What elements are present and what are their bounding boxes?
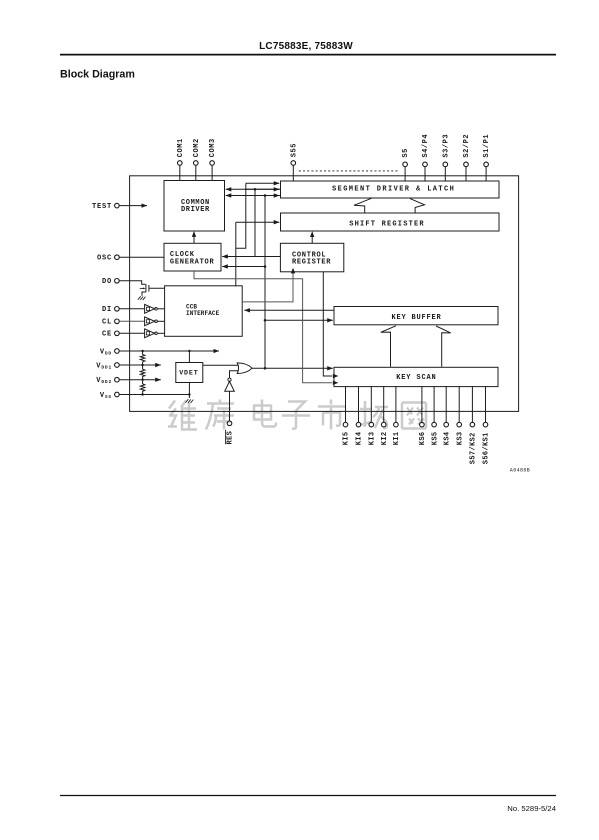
- wire KEY BUFFER to CCB: [244, 309, 334, 311]
- svg-text:KI2: KI2: [381, 432, 389, 446]
- wire line D CCB to SHIFT REGISTER: [236, 221, 279, 223]
- wire KS6: [421, 386, 423, 422]
- wire CE to buffer: [119, 332, 144, 334]
- svg-text:RES: RES: [227, 431, 235, 445]
- svg-text:KS5: KS5: [431, 432, 439, 446]
- pin S3/P3: [443, 162, 448, 167]
- buffer U4 (DI): [145, 304, 155, 313]
- wire CLOCK GENERATOR to KEY SCAN: [194, 271, 332, 383]
- transistor Q1 bulk lead: [140, 287, 144, 289]
- pin S1/P1: [484, 162, 489, 167]
- block labels: [170, 186, 530, 474]
- wire S56/KS1: [485, 386, 487, 422]
- node VDD2-R: [141, 379, 143, 381]
- svg-text:LC75883E, 75883W: LC75883E, 75883W: [259, 41, 353, 52]
- node line C bus: [264, 194, 267, 197]
- wire KS5: [433, 386, 435, 422]
- svg-text:KS4: KS4: [443, 432, 451, 446]
- wire bus to KEY BUFFER: [265, 319, 333, 321]
- node bus-clock: [264, 265, 267, 268]
- pin DO: [115, 279, 120, 284]
- pin KS3: [457, 422, 462, 427]
- transistor Q1 source lead: [142, 292, 146, 296]
- svg-text:VDD1: VDD1: [96, 362, 112, 370]
- pin CE: [115, 331, 120, 336]
- wire KS3: [458, 386, 460, 422]
- svg-text:COM1: COM1: [177, 138, 185, 157]
- wire buffer to CCB (CE): [157, 332, 164, 334]
- pin S56/KS1: [483, 422, 488, 427]
- wire KI4: [358, 386, 360, 422]
- wire CCB to CONTROL REGISTER: [242, 273, 293, 302]
- wire KI1: [395, 386, 397, 422]
- wire CONTROL REGISTER to SHIFT REGISTER: [311, 233, 313, 244]
- wire buffer to CCB (CL): [157, 320, 164, 322]
- svg-text:TEST: TEST: [92, 203, 112, 211]
- wire COM3 to COMMON DRIVER: [211, 165, 213, 180]
- node bus-or: [264, 367, 267, 370]
- svg-text:S4/P4: S4/P4: [422, 134, 430, 158]
- wire CCB top vertical: [235, 222, 237, 286]
- wire DI to buffer: [119, 308, 144, 310]
- pin S55: [291, 161, 296, 166]
- svg-text:S57/KS2: S57/KS2: [470, 432, 478, 464]
- block CCB INTERFACE: [165, 286, 243, 337]
- wire buffer to CCB (DI): [157, 308, 164, 310]
- pin VDD: [115, 349, 120, 354]
- wire line A CCB to SEGMENT: [246, 182, 279, 184]
- wire bus B vertical: [254, 189, 256, 256]
- wire VDET to OR gate: [203, 364, 239, 366]
- wire VDD internal arrow: [119, 350, 219, 352]
- block CLOCK GENERATOR: [164, 243, 221, 271]
- wire RES to inverter: [229, 391, 231, 421]
- svg-text:SEGMENT DRIVER & LATCH: SEGMENT DRIVER & LATCH: [332, 186, 455, 194]
- inverter U2: [225, 381, 235, 391]
- wire KI5: [345, 386, 347, 422]
- fat arrow SHIFT to SEGMENT: [354, 198, 451, 367]
- block SHIFT REGISTER: [281, 213, 500, 231]
- pin VSS: [115, 392, 120, 397]
- transistor Q1 gate plate: [148, 285, 150, 292]
- svg-text:S55: S55: [290, 143, 298, 157]
- pin VDD1: [115, 363, 120, 368]
- svg-text:COM2: COM2: [193, 138, 201, 157]
- node line B bus: [254, 188, 257, 191]
- wire DO to output transistor: [119, 281, 145, 285]
- wire KI2: [383, 386, 385, 422]
- pin KI3: [369, 422, 374, 427]
- svg-text:S5: S5: [402, 148, 410, 158]
- wire S4/P4 to SEGMENT DRIVER: [424, 167, 426, 181]
- resistor R2 (VDD1-VDD2): [140, 365, 145, 380]
- wire KS4: [445, 386, 447, 422]
- svg-text:CE: CE: [102, 331, 112, 339]
- wire VDET to VSS: [188, 383, 190, 399]
- pin KI2: [381, 422, 386, 427]
- wire bus reset vertical: [264, 196, 266, 369]
- svg-text:SHIFT REGISTER: SHIFT REGISTER: [349, 220, 425, 228]
- top pin wires: [180, 165, 486, 181]
- node VDD1-R: [141, 364, 143, 366]
- wire OR output to KEY SCAN: [252, 367, 333, 369]
- svg-text:INTERFACE: INTERFACE: [186, 310, 220, 317]
- wire KI3: [370, 386, 372, 422]
- wire COM1 to COMMON DRIVER: [179, 165, 181, 180]
- page footer: [60, 795, 556, 797]
- wire S2/P2 to SEGMENT DRIVER: [465, 167, 467, 181]
- pin CL: [115, 319, 120, 324]
- pin KS6: [420, 422, 425, 427]
- pin KI1: [394, 422, 399, 427]
- block SEGMENT DRIVER & LATCH: [281, 181, 500, 198]
- wire CLOCK GENERATOR to COMMON DRIVER: [193, 232, 195, 243]
- wire VDD1 internal arrow: [119, 364, 161, 366]
- node VDET-VSS: [188, 393, 190, 395]
- svg-text:OSC: OSC: [97, 255, 112, 263]
- wire CONTROL REGISTER to CLOCK GENERATOR 1: [222, 256, 280, 258]
- svg-text:S2/P2: S2/P2: [463, 134, 471, 158]
- svg-text:KS3: KS3: [456, 432, 464, 446]
- wire S1/P1 to SEGMENT DRIVER: [485, 167, 487, 181]
- pin RES: [227, 421, 232, 426]
- or-gate U7: [237, 363, 252, 374]
- bottom pin circles: [227, 421, 488, 427]
- svg-text:CL: CL: [102, 319, 112, 327]
- svg-text:Block Diagram: Block Diagram: [60, 69, 135, 81]
- wire S55 to SEGMENT DRIVER: [292, 165, 294, 181]
- wire inverter to OR gate: [230, 371, 239, 378]
- junction dots: [141, 188, 266, 396]
- pin COM1: [178, 161, 183, 166]
- top pin circles: [178, 161, 489, 167]
- dashed bus S6..S54: [299, 170, 398, 172]
- wire VDD2 internal arrow: [119, 379, 161, 381]
- svg-text:DO: DO: [102, 278, 112, 286]
- pin OSC: [115, 255, 120, 260]
- svg-text:VDET: VDET: [179, 370, 198, 377]
- svg-text:KS6: KS6: [419, 432, 427, 446]
- buffer U5 (CL): [145, 317, 155, 326]
- diagram: [130, 176, 519, 412]
- wire COM2 to COMMON DRIVER: [195, 165, 197, 180]
- block CONTROL REGISTER: [280, 243, 343, 271]
- wire OSC to CLOCK GENERATOR: [119, 256, 164, 258]
- pin COM2: [194, 161, 199, 166]
- outer border of IC: [130, 176, 519, 412]
- transistor Q1 channel plate: [145, 284, 147, 292]
- wire S57/KS2: [471, 386, 473, 422]
- resistor R1 (VDD-VDD1): [140, 351, 145, 365]
- svg-text:REGISTER: REGISTER: [292, 259, 331, 267]
- pin KI5: [343, 422, 348, 427]
- bottom pin labels: [226, 430, 491, 464]
- left pin labels: [92, 203, 112, 400]
- buffer U6 (CE): [145, 329, 155, 338]
- node VDD-VDET: [188, 350, 190, 352]
- wire line B COMMON-SEGMENT: [226, 188, 280, 190]
- wire line C COMMON-SEGMENT: [226, 195, 280, 197]
- svg-text:KI5: KI5: [343, 432, 351, 446]
- pin VDD2: [115, 377, 120, 382]
- block KEY BUFFER: [334, 307, 498, 325]
- ground below VDET: [186, 399, 194, 403]
- ground below Q1: [138, 296, 146, 300]
- svg-text:DRIVER: DRIVER: [181, 206, 210, 214]
- svg-text:KI1: KI1: [393, 432, 401, 446]
- svg-text:VSS: VSS: [100, 392, 112, 400]
- pin KS5: [432, 422, 437, 427]
- wire S5 to SEGMENT DRIVER: [404, 167, 406, 181]
- svg-text:GENERATOR: GENERATOR: [170, 258, 215, 266]
- watermark 维库电子市场网: [168, 400, 426, 430]
- pin S2/P2: [464, 162, 469, 167]
- left pin circles: [115, 203, 120, 397]
- fat arrow KEY SCAN to KEY BUFFER right: [436, 326, 451, 367]
- bottom pin wires: [346, 386, 486, 422]
- svg-text:S3/P3: S3/P3: [442, 134, 450, 158]
- node VDD-R1: [141, 350, 143, 352]
- svg-text:KI3: KI3: [369, 432, 377, 446]
- wire CONTROL REGISTER to KEY SCAN: [323, 272, 332, 376]
- wire TEST input arrow: [119, 205, 147, 207]
- svg-text:KEY SCAN: KEY SCAN: [396, 374, 436, 382]
- node VSS-R: [141, 393, 143, 395]
- wire S3/P3 to SEGMENT DRIVER: [444, 167, 446, 181]
- svg-text:VDD2: VDD2: [96, 377, 112, 385]
- svg-text:VDD: VDD: [100, 348, 112, 356]
- svg-text:S56/KS1: S56/KS1: [483, 432, 491, 464]
- pin S5: [403, 162, 408, 167]
- pin S4/P4: [423, 162, 428, 167]
- transistor Q1 gate lead to CCB: [149, 287, 165, 289]
- pin TEST: [115, 203, 120, 208]
- resistor R3 (VDD2-VSS): [140, 380, 145, 395]
- pin S57/KS2: [470, 422, 475, 427]
- svg-text:DI: DI: [102, 306, 112, 314]
- svg-text:KEY BUFFER: KEY BUFFER: [392, 314, 442, 322]
- svg-text:No. 5289-5/24: No. 5289-5/24: [507, 804, 556, 813]
- svg-text:COM3: COM3: [209, 138, 217, 157]
- pin KI4: [356, 422, 361, 427]
- wire CL to buffer: [119, 320, 144, 322]
- block KEY SCAN: [334, 367, 498, 386]
- pin COM3: [210, 161, 215, 166]
- wire VDD to VDET: [188, 351, 190, 363]
- pin DI: [115, 307, 120, 312]
- wire bus to CLOCK GENERATOR: [222, 266, 265, 268]
- block VDET U3: [176, 363, 203, 383]
- top pin labels: [177, 134, 491, 158]
- svg-text:A0486B: A0486B: [510, 467, 530, 473]
- svg-text:KI4: KI4: [356, 432, 364, 446]
- node bus-keybuffer: [264, 319, 267, 322]
- wire VSS: [119, 394, 189, 396]
- svg-text:S1/P1: S1/P1: [483, 134, 491, 158]
- block COMMON DRIVER: [164, 181, 225, 232]
- internal wires: [119, 183, 338, 421]
- fat arrow KEY SCAN to KEY BUFFER left: [381, 326, 396, 367]
- pin KS4: [444, 422, 449, 427]
